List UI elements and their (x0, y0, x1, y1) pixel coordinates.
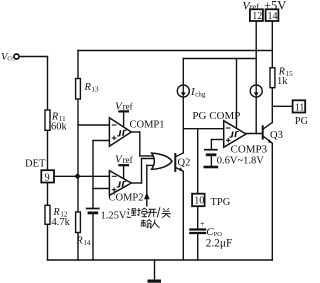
svg-text:1.25V: 1.25V (101, 211, 127, 222)
svg-text:+: + (200, 220, 205, 229)
svg-text:ref: ref (123, 102, 133, 112)
svg-text:0.6V~1.8V: 0.6V~1.8V (217, 155, 265, 166)
svg-text:CC: CC (7, 57, 15, 63)
svg-text:9: 9 (45, 172, 50, 183)
svg-text:60k: 60k (51, 121, 68, 132)
svg-text:R: R (76, 235, 83, 246)
svg-text:14: 14 (268, 11, 278, 22)
svg-text:PG COMP: PG COMP (192, 110, 240, 122)
svg-text:11: 11 (295, 102, 305, 113)
svg-text:DET: DET (25, 158, 46, 169)
svg-text:Q3: Q3 (270, 130, 283, 141)
svg-text:R: R (84, 82, 92, 93)
svg-text:PG: PG (295, 116, 307, 127)
svg-text:TPG: TPG (211, 197, 231, 208)
svg-text:13: 13 (92, 86, 100, 94)
svg-text:1k: 1k (277, 76, 288, 87)
svg-text:Q2: Q2 (178, 158, 191, 169)
svg-text:ref: ref (123, 155, 133, 165)
svg-text:COMP2: COMP2 (109, 193, 144, 204)
svg-text:2.2μF: 2.2μF (206, 237, 232, 249)
svg-text:COMP1: COMP1 (130, 120, 165, 131)
svg-text:COMP3: COMP3 (231, 143, 268, 155)
svg-text:10: 10 (194, 196, 204, 207)
svg-text:chg: chg (195, 90, 206, 98)
svg-text:4.7k: 4.7k (52, 217, 71, 228)
svg-text:ref: ref (250, 1, 260, 11)
svg-text:12: 12 (252, 11, 262, 22)
svg-text:14: 14 (83, 239, 91, 247)
